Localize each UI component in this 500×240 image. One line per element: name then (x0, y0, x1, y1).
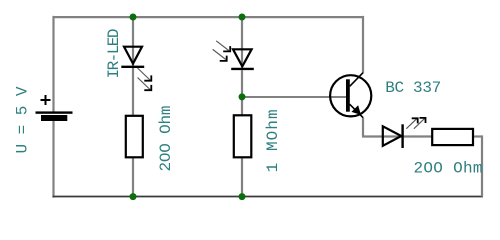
svg-text:BC 337: BC 337 (385, 79, 441, 97)
wire emitter to LED (362, 135, 401, 137)
photodiode D2 incident-light arrows (213, 41, 231, 61)
wire top horizontal (53, 16, 364, 18)
node junction dot bottom branch1 (130, 193, 137, 200)
wire branch1 top lead (132, 17, 134, 66)
wire branch2 middle lead (241, 70, 243, 115)
node junction dot bottom branch2 (239, 193, 246, 200)
wire branch2 top lead (241, 17, 243, 68)
wire collector vertical (362, 16, 364, 73)
IR-LED D1 emitted-light arrows (138, 68, 152, 90)
node junction dot top branch2 (239, 14, 246, 21)
wire left vertical upper (battery plus lead) (52, 16, 54, 112)
wire branch1 bottom lead (132, 157, 134, 197)
svg-text:IR-LED: IR-LED (105, 29, 123, 79)
svg-text:2OO Ohm: 2OO Ohm (157, 106, 175, 172)
wire LED to resistor (403, 135, 433, 137)
photodiode D2 (231, 49, 254, 69)
IR-LED D1 (121, 47, 144, 67)
node junction dot top branch1 (130, 14, 137, 21)
resistor R3 200 Ohm (432, 129, 473, 145)
resistor R2 1 MOhm (234, 115, 252, 157)
svg-text:2OO Ohm: 2OO Ohm (414, 160, 483, 178)
wire base from node to transistor (242, 96, 347, 98)
LED D3 output (383, 124, 403, 148)
battery B1 (36, 95, 73, 121)
wire branch1 middle lead (132, 68, 134, 116)
transistor Q1 BC337 (330, 73, 371, 118)
LED D3 emitted-light arrows (406, 118, 425, 129)
node junction dot base (239, 93, 246, 100)
wire resistor to right edge (473, 135, 482, 137)
resistor R1 200 Ohm (126, 116, 143, 158)
wire left vertical lower (battery minus lead) (52, 121, 54, 198)
wire branch2 bottom lead (241, 157, 243, 196)
wire emitter vertical (362, 117, 364, 136)
wire right vertical (481, 135, 483, 196)
svg-text:U = 5 V: U = 5 V (14, 86, 32, 153)
wire bottom horizontal (53, 196, 484, 198)
svg-text:1 MOhm: 1 MOhm (264, 109, 282, 172)
